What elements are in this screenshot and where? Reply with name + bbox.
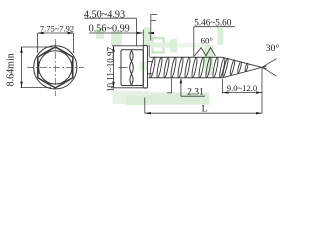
svg-text:10.11~10.97: 10.11~10.97: [105, 46, 115, 92]
svg-text:8.64min: 8.64min: [6, 53, 17, 86]
svg-text:L: L: [202, 104, 208, 114]
svg-text:9.0~12.0: 9.0~12.0: [227, 83, 257, 93]
svg-text:0.56~0.99: 0.56~0.99: [89, 23, 130, 34]
svg-text:2.31: 2.31: [187, 87, 204, 98]
svg-text:7.75~7.92: 7.75~7.92: [40, 23, 74, 33]
svg-text:60°: 60°: [201, 35, 214, 45]
svg-text:4.50~4.93: 4.50~4.93: [84, 9, 125, 20]
svg-text:30°: 30°: [266, 43, 280, 54]
svg-text:5.46~5.60: 5.46~5.60: [194, 17, 232, 27]
